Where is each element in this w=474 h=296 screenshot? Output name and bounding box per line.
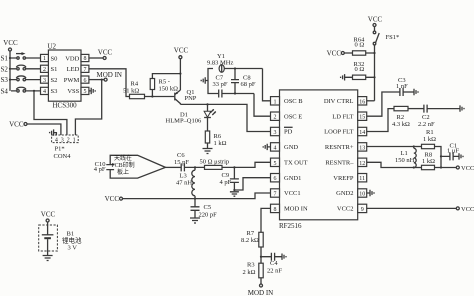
svg-text:9: 9 xyxy=(361,207,364,213)
wire R7 to R3 xyxy=(260,247,262,263)
pin 8 U3 xyxy=(271,204,280,213)
node base R5 junction xyxy=(151,95,153,97)
svg-text:1: 1 xyxy=(274,99,277,105)
wire R4 to base node xyxy=(145,96,175,98)
node C9 bottom xyxy=(233,189,235,191)
svg-text:S4: S4 xyxy=(1,87,9,95)
connector P1 CON4 xyxy=(52,135,79,160)
svg-text:22 nF: 22 nF xyxy=(267,268,282,275)
node S3 rail xyxy=(9,79,11,81)
svg-text:2.2 nF: 2.2 nF xyxy=(418,121,435,128)
capacitor C5 xyxy=(191,199,218,219)
svg-text:3: 3 xyxy=(274,130,277,136)
wire R5 bottom to base xyxy=(151,90,153,97)
svg-text:51 kΩ: 51 kΩ xyxy=(123,87,139,94)
pin 1 U2 xyxy=(41,54,49,62)
pin 14 U3 xyxy=(358,127,367,136)
svg-text:GND1: GND1 xyxy=(284,175,301,182)
resistor R7 xyxy=(241,230,263,247)
svg-text:VSS: VSS xyxy=(67,88,79,95)
wire antenna to C6 xyxy=(166,166,182,168)
svg-text:1 kΩ: 1 kΩ xyxy=(423,136,436,143)
svg-text:2: 2 xyxy=(274,115,277,121)
crystal Y1 xyxy=(207,53,233,72)
power VCC at resonator xyxy=(456,165,474,172)
resistor R8 xyxy=(422,151,436,169)
svg-text:MOD IN: MOD IN xyxy=(97,71,122,79)
wire R6 to ground xyxy=(207,143,209,149)
svg-text:HLMP–Q106: HLMP–Q106 xyxy=(166,118,203,125)
resistor R64 xyxy=(344,36,374,55)
svg-text:68 pF: 68 pF xyxy=(241,81,256,88)
pin 7 U2 xyxy=(81,65,89,73)
svg-text:4: 4 xyxy=(55,137,58,143)
svg-text:C9: C9 xyxy=(222,172,230,179)
pin 6 U2 xyxy=(81,76,89,84)
svg-text:5: 5 xyxy=(84,89,87,95)
resistor R32 xyxy=(345,61,375,80)
svg-text:5: 5 xyxy=(274,161,277,167)
ground at GND2 pin10 xyxy=(367,190,374,196)
ground at C3 xyxy=(414,89,418,95)
svg-text:11: 11 xyxy=(359,176,365,182)
svg-text:4 pF: 4 pF xyxy=(220,179,232,186)
wire C3 to ground xyxy=(403,91,414,93)
wire R1 to C1 node xyxy=(435,147,442,168)
wire VDD to VCC xyxy=(89,57,103,59)
inductor L1 xyxy=(395,147,416,168)
svg-text:7: 7 xyxy=(84,67,87,73)
svg-text:VCC: VCC xyxy=(461,165,474,172)
capacitor C1 xyxy=(441,142,459,160)
svg-text:天线在: 天线在 xyxy=(114,154,132,162)
node crystal top C8 xyxy=(234,67,236,69)
svg-text:1 kΩ: 1 kΩ xyxy=(422,158,435,165)
svg-text:LD FLT: LD FLT xyxy=(332,113,353,120)
svg-text:R6: R6 xyxy=(214,133,222,140)
switch S4 xyxy=(1,87,41,95)
svg-text:VCC: VCC xyxy=(368,16,383,24)
node L3 top xyxy=(194,166,196,168)
svg-text:C6: C6 xyxy=(177,152,185,159)
svg-text:B1: B1 xyxy=(67,231,75,238)
wire R8 to VCC xyxy=(435,167,457,169)
svg-text:VCC: VCC xyxy=(327,50,342,58)
capacitor C3 xyxy=(396,77,408,96)
svg-text:C2: C2 xyxy=(422,114,430,121)
svg-text:GND: GND xyxy=(284,144,298,151)
node MOD IN xyxy=(101,79,103,81)
pin 11 U3 xyxy=(358,174,367,183)
svg-text:CON4: CON4 xyxy=(54,153,72,160)
pin 5 U2 xyxy=(81,87,89,95)
node MOD IN terminal xyxy=(97,71,122,81)
ground below C9 xyxy=(230,192,239,196)
svg-text:VCC: VCC xyxy=(174,47,189,55)
svg-text:14: 14 xyxy=(359,130,365,136)
svg-text:R1: R1 xyxy=(426,129,434,136)
power VCC at CON4 xyxy=(9,121,27,129)
svg-text:8.2 kΩ: 8.2 kΩ xyxy=(241,237,259,244)
power VCC at VDD xyxy=(98,49,113,60)
svg-text:LED: LED xyxy=(67,66,80,73)
ground below C5 xyxy=(190,218,200,223)
svg-text:VREFP: VREFP xyxy=(333,175,354,182)
svg-text:RESNTR–: RESNTR– xyxy=(325,160,354,167)
svg-text:S3: S3 xyxy=(51,88,58,95)
wire MOD IN pin8 to R7 xyxy=(261,208,271,232)
pin 16 U3 xyxy=(358,97,367,106)
ground at C1 xyxy=(459,153,463,159)
resistor R3 xyxy=(243,262,264,278)
wire microstrip to TX OUT pin5 xyxy=(222,162,271,167)
node L3 bottom on VCC rail xyxy=(194,198,196,200)
svg-text:VCC: VCC xyxy=(41,211,56,219)
power VCC rail left terminal xyxy=(105,195,123,203)
svg-text:L3: L3 xyxy=(180,173,187,180)
svg-text:C5: C5 xyxy=(204,204,212,211)
ground below battery xyxy=(43,256,53,261)
ground at VSS pin5 xyxy=(89,88,95,94)
svg-text:150 nH: 150 nH xyxy=(395,157,415,164)
wire collector to PD xyxy=(180,104,270,131)
node D1 top xyxy=(206,103,208,105)
svg-text:R7: R7 xyxy=(247,230,255,237)
capacitor C6 xyxy=(174,152,189,171)
transistor Q1 xyxy=(175,89,197,105)
pin 12 U3 xyxy=(358,158,367,167)
resistor R2 xyxy=(392,106,410,128)
svg-text:8: 8 xyxy=(274,207,277,213)
resistor R6 xyxy=(205,131,226,147)
wire RESNTR+ pin13 to node xyxy=(367,146,414,148)
svg-text:1: 1 xyxy=(43,56,46,62)
svg-text:S1: S1 xyxy=(1,55,9,63)
svg-text:OSC E: OSC E xyxy=(284,113,302,120)
switch S3 xyxy=(1,76,41,84)
svg-text:15: 15 xyxy=(359,115,365,121)
wire node to R8 xyxy=(414,167,422,169)
resistor R4 xyxy=(123,81,145,99)
wire crystal top to OSC B pin1 xyxy=(263,69,271,101)
node S4 to CON4 xyxy=(33,90,35,92)
capacitor C9 xyxy=(220,167,239,190)
svg-text:50 Ω μstrip: 50 Ω μstrip xyxy=(200,159,230,166)
svg-text:VCC: VCC xyxy=(98,49,113,57)
ground at R32 xyxy=(341,74,345,80)
node S2 rail xyxy=(9,68,11,70)
svg-text:150 kΩ: 150 kΩ xyxy=(159,86,179,93)
wire LOOP FLT pin14 to R2 xyxy=(367,109,394,132)
svg-text:L1: L1 xyxy=(401,150,408,157)
svg-text:R5 -: R5 - xyxy=(159,79,170,86)
svg-text:OSC B: OSC B xyxy=(284,98,303,105)
node R64 junction xyxy=(373,52,375,54)
capacitor C2 xyxy=(418,105,435,128)
node R8 right xyxy=(440,166,442,168)
svg-text:LOOP FLT: LOOP FLT xyxy=(324,129,353,136)
svg-text:220 pF: 220 pF xyxy=(199,212,218,219)
ground at crystal left xyxy=(201,77,208,83)
capacitor C4 xyxy=(261,253,282,275)
resistor R1 xyxy=(422,129,437,149)
svg-text:U2: U2 xyxy=(48,43,57,51)
wire LED pin7 to R4 xyxy=(89,69,130,97)
power VCC at VCC2 xyxy=(456,206,474,213)
svg-text:0 Ω: 0 Ω xyxy=(355,66,365,73)
wire GND1 pin6 to C9 bottom xyxy=(234,178,270,190)
capacitor C10 xyxy=(94,161,106,173)
pin 2 U3 xyxy=(271,112,280,121)
svg-text:3: 3 xyxy=(61,137,64,143)
pin 3 U2 xyxy=(41,76,49,84)
svg-text:C4: C4 xyxy=(270,260,278,267)
pin 5 U3 xyxy=(271,158,280,167)
pin 1 U3 xyxy=(271,97,280,106)
wire R3 to MOD IN terminal xyxy=(260,278,262,284)
battery B1 xyxy=(39,211,82,256)
svg-text:6: 6 xyxy=(84,78,87,84)
node C1 junction xyxy=(440,155,442,157)
svg-text:4: 4 xyxy=(43,89,46,95)
svg-text:PCB印制: PCB印制 xyxy=(111,161,134,169)
node C4 junction xyxy=(260,256,262,258)
wire PWM pin6 to MOD IN node xyxy=(89,79,104,81)
svg-text:S0: S0 xyxy=(51,55,58,62)
wire crystal left loop xyxy=(208,69,263,94)
capacitor C7 xyxy=(213,75,228,98)
svg-text:VDD: VDD xyxy=(65,55,79,62)
pin 8 U2 xyxy=(81,54,89,62)
pin 13 U3 xyxy=(358,143,367,152)
svg-text:4: 4 xyxy=(274,145,277,151)
ground at C4 xyxy=(282,254,286,260)
pin 9 U3 xyxy=(358,204,367,213)
svg-text:PNP: PNP xyxy=(185,95,197,102)
inductor L3 xyxy=(176,167,195,198)
pin 4 U2 xyxy=(41,87,49,95)
pin 3 U3 xyxy=(271,127,280,136)
microstrip 50ohm xyxy=(200,159,230,170)
svg-text:P1*: P1* xyxy=(55,146,65,153)
svg-text:MOD IN: MOD IN xyxy=(284,206,308,213)
svg-text:13: 13 xyxy=(359,145,365,151)
IC U3 RF2516 body xyxy=(279,90,358,230)
svg-text:S2: S2 xyxy=(1,65,9,73)
node S1 rail xyxy=(9,57,11,59)
wire DIV CTRL pin16 to node xyxy=(367,100,375,102)
svg-text:1: 1 xyxy=(73,137,76,143)
svg-text:10: 10 xyxy=(359,192,365,198)
LED D1 xyxy=(166,104,216,131)
svg-text:RESNTR+: RESNTR+ xyxy=(325,144,354,151)
switch S2 xyxy=(1,65,41,73)
switch S1 xyxy=(1,52,41,62)
svg-text:HCS300: HCS300 xyxy=(53,102,78,110)
power VCC at Q1 xyxy=(174,47,189,59)
IC U2 HCS300 body xyxy=(48,43,82,110)
power VCC at FS1 xyxy=(368,16,383,27)
wire crystal bottom to OSC E pin2 xyxy=(254,94,271,117)
svg-text:4 pF: 4 pF xyxy=(94,166,106,173)
node emitter VCC R5 xyxy=(179,73,181,75)
node L1 bottom xyxy=(413,166,415,168)
pin 4 U3 xyxy=(271,143,280,152)
svg-text:4.3 kΩ: 4.3 kΩ xyxy=(392,121,410,128)
svg-text:PWM: PWM xyxy=(64,77,80,84)
wire S4 node to CON4 pin2 xyxy=(34,91,67,135)
svg-text:S1: S1 xyxy=(51,66,58,73)
ground below R6 xyxy=(203,149,213,154)
svg-text:2: 2 xyxy=(43,67,46,73)
ground at CON4 pin4 xyxy=(50,129,57,135)
wire MOD IN node to CON4 pin1 xyxy=(75,80,101,135)
svg-text:12: 12 xyxy=(359,161,365,167)
node MOD IN bottom terminal xyxy=(248,284,273,296)
ground at C2 xyxy=(460,105,464,111)
svg-text:3: 3 xyxy=(43,78,46,84)
pin 10 U3 xyxy=(358,189,367,198)
svg-text:GND2: GND2 xyxy=(336,190,353,197)
resistor R5 xyxy=(150,79,178,93)
node crystal bottom C8 xyxy=(234,92,236,94)
pin 15 U3 xyxy=(358,112,367,121)
svg-text:VCC: VCC xyxy=(461,206,474,213)
svg-text:16: 16 xyxy=(359,99,365,105)
ground at GND pin4 xyxy=(263,144,270,150)
svg-text:R3: R3 xyxy=(247,262,255,269)
svg-text:R2: R2 xyxy=(397,114,405,121)
pin 6 U3 xyxy=(271,174,280,183)
wire C6 to L3 node xyxy=(184,166,204,168)
switch FS1 xyxy=(373,27,399,101)
wire VCC2 pin9 to VCC xyxy=(367,207,457,209)
svg-text:7: 7 xyxy=(274,192,277,198)
svg-text:VCC2: VCC2 xyxy=(337,206,354,213)
svg-text:VCC1: VCC1 xyxy=(284,190,301,197)
svg-text:VCC: VCC xyxy=(105,195,120,203)
svg-text:DIV CTRL: DIV CTRL xyxy=(324,98,354,105)
svg-text:8: 8 xyxy=(84,56,87,62)
node L1 top xyxy=(413,145,415,147)
svg-text:板上: 板上 xyxy=(117,168,129,176)
wire node to R1 xyxy=(414,146,422,148)
wire VCC to CON4 pin3 xyxy=(27,124,61,135)
svg-text:1 nF: 1 nF xyxy=(396,83,408,90)
wire VCC to emitter xyxy=(179,59,181,90)
wire R2 to C2 xyxy=(408,108,424,110)
wire R5 top to VCC node xyxy=(152,74,180,79)
svg-text:33 pF: 33 pF xyxy=(213,81,228,88)
svg-text:VCC: VCC xyxy=(3,39,18,47)
svg-text:3 V: 3 V xyxy=(68,245,78,252)
svg-text:PD: PD xyxy=(284,129,293,136)
node R32 junction xyxy=(373,76,375,78)
svg-text:FS1*: FS1* xyxy=(386,34,400,41)
svg-text:S3: S3 xyxy=(1,76,9,84)
antenna on PCB xyxy=(106,154,165,178)
power VCC top-left xyxy=(3,39,18,51)
svg-text:TX OUT: TX OUT xyxy=(284,160,308,167)
wire VCC rail to switches xyxy=(9,51,11,91)
svg-text:47 nH: 47 nH xyxy=(176,180,192,187)
svg-text:6: 6 xyxy=(274,176,277,182)
capacitor C8 xyxy=(231,69,256,94)
wire LD FLT pin15 to C3 xyxy=(367,92,400,116)
svg-text:VCC: VCC xyxy=(9,121,24,129)
pin 2 U2 xyxy=(41,65,49,73)
svg-text:2 kΩ: 2 kΩ xyxy=(243,269,256,276)
svg-text:锂电池: 锂电池 xyxy=(62,236,82,245)
power VCC at R64 xyxy=(327,50,345,58)
svg-text:0 Ω: 0 Ω xyxy=(355,41,365,48)
node C9 top xyxy=(233,166,235,168)
wire C2 to ground xyxy=(427,108,460,110)
pin 7 U3 xyxy=(271,189,280,198)
wire RESNTR- pin12 to node xyxy=(367,162,414,167)
svg-text:1 kΩ: 1 kΩ xyxy=(214,140,227,147)
svg-text:S2: S2 xyxy=(51,77,58,84)
wire VCC rail to VCC1 pin7 xyxy=(123,193,271,199)
svg-text:MOD IN: MOD IN xyxy=(248,289,273,296)
svg-text:2: 2 xyxy=(67,137,70,143)
svg-text:RF2516: RF2516 xyxy=(279,222,302,230)
